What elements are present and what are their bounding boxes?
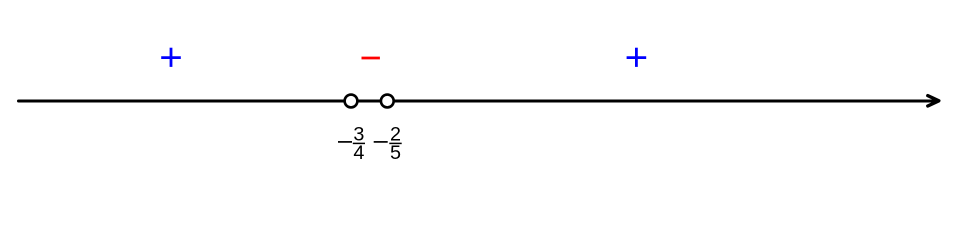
label -3/4 [338,123,365,164]
arrowhead [928,96,939,106]
svg-text:5: 5 [390,142,401,164]
open circle at -3/4 [345,95,358,108]
minus sign (middle interval, red) [362,57,380,60]
svg-text:4: 4 [353,142,364,164]
label -2/5 [374,123,402,164]
plus sign (right interval, blue) [627,48,647,67]
number line [19,100,937,103]
open circle at -2/5 [381,95,394,108]
plus sign (left interval, blue) [161,48,181,67]
